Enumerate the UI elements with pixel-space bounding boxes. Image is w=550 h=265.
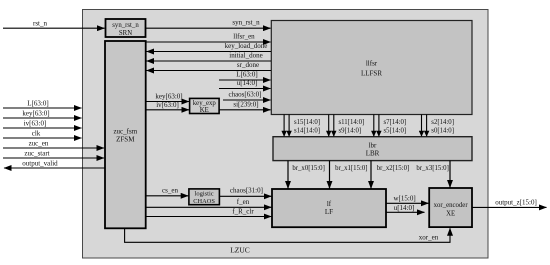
svg-text:f_en: f_en: [237, 198, 250, 206]
wire s15/s14 pair LLFSR to LBR: [283, 115, 285, 137]
svg-text:initial_done: initial_done: [229, 52, 262, 60]
svg-text:s0[14:0]: s0[14:0]: [431, 128, 454, 135]
svg-text:sr_done: sr_done: [237, 61, 259, 69]
svg-text:s7[14:0]: s7[14:0]: [384, 119, 407, 126]
wire zuc_start: [3, 157, 104, 159]
svg-text:s14[14:0]: s14[14:0]: [294, 128, 320, 135]
svg-text:lbr: lbr: [369, 141, 377, 149]
svg-text:llfsr_en: llfsr_en: [233, 33, 255, 41]
wire clk: [3, 137, 82, 139]
wire s11/s9 pair LLFSR to LBR: [328, 115, 330, 137]
svg-text:iv[63:0]: iv[63:0]: [24, 119, 47, 127]
svg-text:LBR: LBR: [366, 149, 380, 157]
svg-text:L[63:0]: L[63:0]: [27, 99, 48, 107]
block ZFSM zuc_fsm: [105, 41, 146, 228]
svg-text:br_x3[15:0]: br_x3[15:0]: [416, 165, 448, 172]
wire output_valid: [4, 167, 105, 169]
block SRN syn_rst_n: [106, 19, 146, 37]
svg-text:s15[14:0]: s15[14:0]: [294, 119, 320, 126]
svg-text:xor_encoder: xor_encoder: [434, 202, 469, 209]
block KE key_exp: [190, 98, 220, 113]
wire f_en ZFSM to LF: [146, 206, 272, 208]
wire xor_en ZFSM to XE: [125, 228, 450, 242]
wire key[63:0] ZFSM to KE: [146, 101, 189, 103]
svg-text:rst_n: rst_n: [33, 20, 48, 28]
svg-text:clk: clk: [32, 129, 41, 137]
svg-text:si[239:0]: si[239:0]: [233, 100, 258, 108]
wire w[15:0] LF to XE: [386, 202, 429, 204]
wire chaos[31:0] CHAOS to LF: [219, 195, 271, 197]
svg-text:L[63:0]: L[63:0]: [236, 71, 257, 79]
svg-text:lf: lf: [327, 200, 332, 208]
wire key[63:0] input: [3, 117, 82, 119]
svg-text:key_load_done: key_load_done: [225, 42, 268, 50]
wire zuc_en: [3, 147, 104, 149]
svg-text:s2[14:0]: s2[14:0]: [431, 119, 454, 126]
svg-text:s9[14:0]: s9[14:0]: [339, 128, 362, 135]
wire iv[63:0] input: [3, 127, 82, 129]
svg-text:output_z[15:0]: output_z[15:0]: [495, 199, 537, 207]
block CHAOS logistic: [189, 189, 220, 205]
svg-text:zuc_en: zuc_en: [29, 139, 49, 147]
wire br_x2[15:0] LBR to LF: [370, 161, 372, 189]
svg-text:LF: LF: [325, 208, 333, 216]
wire f_R_clr ZFSM to LF: [146, 216, 272, 218]
svg-text:xor_en: xor_en: [419, 234, 439, 242]
svg-text:XE: XE: [446, 211, 455, 218]
svg-text:zuc_fsm: zuc_fsm: [113, 128, 137, 136]
svg-text:br_x1[15:0]: br_x1[15:0]: [335, 165, 367, 172]
svg-text:output_valid: output_valid: [22, 159, 58, 167]
svg-text:u[14:0]: u[14:0]: [237, 79, 258, 87]
wire u[14:0] to LLFSR: [219, 88, 271, 90]
wire key_load_done: [147, 51, 272, 53]
svg-text:iv[63:0]: iv[63:0]: [156, 101, 179, 109]
block LLFSR llfsr: [271, 21, 472, 115]
wire cs_en ZFSM to CHAOS: [146, 195, 189, 197]
svg-text:llfsr: llfsr: [366, 60, 378, 68]
block LBR lbr: [273, 137, 472, 161]
wire br_x3[15:0] LBR to XE: [449, 161, 451, 188]
svg-text:u[14:0]: u[14:0]: [394, 204, 415, 212]
wire s2/s0 pair LLFSR to LBR: [421, 115, 423, 137]
svg-text:br_x0[15:0]: br_x0[15:0]: [292, 165, 324, 172]
wire br_x0[15:0] LBR to LF: [287, 161, 289, 189]
block XE xor_encoder: [429, 188, 472, 227]
svg-text:s11[14:0]: s11[14:0]: [339, 119, 365, 126]
wire rst_n: [3, 27, 105, 29]
wire si[239:0] KE to LLFSR: [219, 109, 270, 111]
svg-text:chaos[31:0]: chaos[31:0]: [230, 187, 263, 195]
svg-text:KE: KE: [200, 107, 209, 114]
svg-text:LZUC: LZUC: [230, 246, 250, 255]
svg-text:f_R_clr: f_R_clr: [232, 208, 254, 216]
wire llfsr_en: [146, 41, 271, 43]
svg-text:syn_rst_n: syn_rst_n: [112, 22, 139, 29]
outer module frame LZUC: [83, 10, 489, 259]
svg-text:ZFSM: ZFSM: [116, 136, 135, 144]
svg-text:br_x2[15:0]: br_x2[15:0]: [377, 165, 409, 172]
svg-text:key[63:0]: key[63:0]: [22, 109, 49, 117]
block LF lf: [272, 189, 386, 227]
wire sr_done: [147, 70, 272, 72]
svg-text:chaos[63:0]: chaos[63:0]: [228, 91, 261, 99]
svg-text:SRN: SRN: [119, 30, 132, 37]
wire iv[63:0] ZFSM to KE: [146, 109, 189, 111]
svg-text:w[15:0]: w[15:0]: [394, 195, 416, 203]
svg-text:s5[14:0]: s5[14:0]: [384, 128, 407, 135]
svg-text:CHAOS: CHAOS: [193, 198, 215, 205]
wire L[63:0] to LLFSR: [219, 79, 271, 81]
wire L[63:0] input: [3, 107, 82, 109]
wire br_x1[15:0] LBR to LF: [329, 161, 331, 189]
wire initial_done: [147, 60, 272, 62]
svg-text:logistic: logistic: [195, 190, 214, 197]
wire s7/s5 pair LLFSR to LBR: [373, 115, 375, 137]
svg-text:LLFSR: LLFSR: [361, 70, 382, 78]
wire output_z[15:0]: [472, 206, 547, 208]
wire u[14:0] LF to XE: [386, 211, 425, 213]
wire chaos[63:0] to LLFSR: [223, 99, 271, 101]
svg-text:key_exp: key_exp: [193, 100, 217, 107]
wire syn_rst_n SRN to LLFSR: [146, 27, 271, 29]
svg-text:key[63:0]: key[63:0]: [155, 93, 182, 101]
svg-text:syn_rst_n: syn_rst_n: [232, 19, 260, 27]
svg-text:zuc_start: zuc_start: [24, 149, 49, 157]
svg-text:cs_en: cs_en: [162, 187, 178, 195]
